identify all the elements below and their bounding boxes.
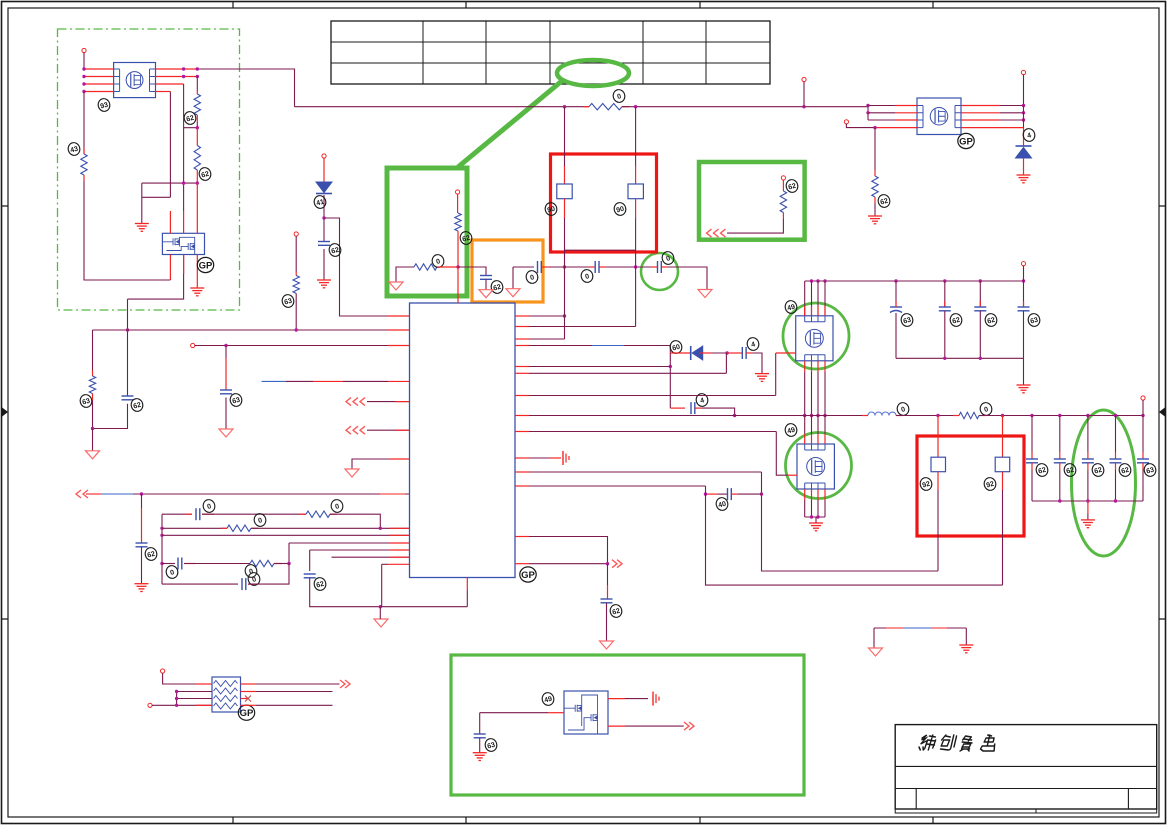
junction	[1022, 104, 1025, 107]
label R10	[612, 88, 626, 103]
wire	[804, 281, 806, 316]
highlight rect 3 (bottom)	[451, 655, 804, 795]
wire pin row	[529, 326, 636, 328]
label R6	[253, 512, 267, 527]
label R3	[198, 166, 212, 181]
label C18	[695, 392, 709, 407]
wire Q3 pin	[961, 112, 1000, 114]
junction	[1022, 279, 1025, 282]
wire	[635, 218, 637, 327]
junction	[1086, 414, 1089, 417]
terminal P8	[844, 120, 848, 124]
svg-text:GP: GP	[240, 708, 254, 719]
wire pin row	[529, 338, 565, 340]
pin stub	[515, 326, 529, 328]
label C7	[165, 564, 179, 579]
wire	[1087, 501, 1089, 514]
wire gate	[776, 352, 796, 354]
junction	[82, 90, 85, 93]
wire	[1087, 416, 1089, 453]
pin stub	[515, 415, 529, 417]
wire	[310, 549, 410, 551]
wire	[700, 352, 711, 354]
wire	[1000, 119, 1024, 121]
resistor R11	[780, 191, 786, 213]
label C3	[328, 242, 342, 257]
wire	[162, 534, 410, 536]
label C11	[525, 269, 539, 284]
wire	[815, 517, 817, 523]
wire	[221, 527, 227, 529]
junction	[1141, 414, 1144, 417]
label C22	[1063, 462, 1077, 477]
wire	[874, 170, 876, 176]
wire	[162, 583, 238, 585]
resistor pack element	[214, 696, 238, 702]
pin stub	[515, 471, 529, 473]
wire	[169, 92, 171, 198]
wire	[83, 92, 85, 155]
wire	[979, 415, 1143, 417]
wire	[746, 352, 752, 354]
capacitor C18	[691, 402, 695, 414]
label R8	[459, 230, 473, 245]
junction	[1022, 111, 1025, 114]
wire Q1 left pin	[84, 68, 114, 70]
junction	[606, 562, 609, 565]
wire	[1087, 514, 1089, 520]
wire pin	[811, 416, 813, 435]
jumper J2	[628, 184, 643, 199]
capacitor C26	[474, 734, 486, 738]
wire	[944, 311, 946, 359]
junction	[823, 279, 826, 282]
wire pin row	[324, 218, 410, 316]
wire	[184, 563, 250, 565]
wire	[83, 175, 85, 181]
designator GP RP1	[238, 705, 254, 720]
pin stub	[515, 431, 529, 433]
wire	[625, 725, 684, 727]
wire	[309, 550, 311, 571]
wire pin	[824, 489, 826, 500]
highlight circle q1	[783, 303, 849, 369]
wire	[289, 542, 410, 544]
wire	[625, 698, 648, 700]
label D3	[669, 339, 683, 354]
designator GP Q3	[958, 133, 974, 148]
wire	[196, 77, 198, 92]
capacitor C19	[728, 488, 732, 500]
pin stub	[390, 542, 410, 544]
wire	[895, 313, 897, 358]
diode D3	[691, 346, 703, 360]
highlight circle small	[641, 253, 678, 290]
junction	[1001, 414, 1004, 417]
wire Q2 pin	[196, 255, 198, 289]
wire	[93, 400, 128, 429]
title block	[895, 725, 1157, 813]
wire	[874, 203, 876, 216]
wire	[183, 84, 185, 211]
ground	[959, 645, 973, 653]
wire pin	[824, 306, 826, 316]
junction	[160, 562, 163, 565]
junction	[287, 562, 290, 565]
capacitor	[974, 307, 986, 311]
wire	[202, 513, 214, 515]
orange rect	[472, 240, 543, 302]
pin stub	[388, 345, 410, 347]
wire	[635, 166, 637, 184]
wire	[1023, 281, 1025, 307]
wire	[895, 112, 917, 114]
wire	[141, 508, 143, 543]
highlight ellipse right	[1072, 410, 1136, 556]
label D1	[313, 194, 327, 209]
label R2	[183, 110, 197, 125]
wire	[295, 236, 297, 272]
terminal P10	[1021, 262, 1025, 266]
wire	[661, 266, 668, 268]
wire gate	[787, 474, 797, 476]
wire	[811, 372, 813, 416]
label C5	[202, 498, 216, 513]
wire	[141, 547, 143, 584]
terminal P9	[1021, 70, 1025, 74]
label C25	[1143, 462, 1157, 477]
label C4	[144, 546, 158, 561]
label C16	[1027, 312, 1041, 327]
wire	[1059, 470, 1061, 501]
pin stub	[395, 401, 410, 403]
wire	[937, 416, 939, 458]
junction	[816, 515, 819, 518]
wire	[396, 267, 414, 282]
wire rail	[622, 106, 868, 108]
wire Q1 pin	[156, 76, 198, 78]
wire	[379, 607, 381, 619]
label R11	[785, 178, 799, 193]
capacitor C1	[122, 396, 134, 400]
resistor R3	[194, 146, 200, 171]
junction	[196, 75, 199, 78]
highlight rect 1	[387, 168, 467, 296]
junction	[816, 279, 819, 282]
junction	[322, 216, 325, 219]
wire	[1031, 470, 1033, 501]
wire pin	[804, 361, 806, 372]
wire Q1 left pin	[84, 76, 114, 78]
junction	[1114, 414, 1117, 417]
junction	[182, 67, 185, 70]
wire	[868, 112, 895, 114]
junction	[943, 357, 946, 360]
junction	[295, 328, 298, 331]
wire	[323, 195, 325, 242]
capacitor C12	[658, 261, 662, 273]
wire	[381, 564, 383, 606]
junction	[175, 690, 178, 693]
wire pin	[804, 489, 806, 500]
wire	[330, 514, 380, 528]
wire	[142, 182, 198, 184]
wire pin	[811, 306, 813, 316]
junction	[943, 279, 946, 282]
wire	[707, 493, 718, 495]
wire	[202, 513, 306, 515]
resistor R12	[872, 176, 878, 197]
ground	[190, 288, 204, 296]
wire Q6 pin	[608, 725, 625, 727]
terminal P2	[191, 343, 195, 347]
ground (triangle)	[219, 429, 233, 437]
wire	[874, 197, 876, 203]
wire	[873, 628, 875, 648]
designator GP U1	[520, 567, 536, 582]
resistor R2	[194, 94, 200, 115]
capacitor C10	[480, 276, 492, 280]
wire pin row	[529, 315, 565, 317]
wire	[1002, 472, 1004, 490]
wire rung	[565, 249, 636, 251]
wire pin	[804, 416, 806, 435]
wire	[330, 513, 337, 515]
wire	[606, 266, 654, 268]
wire	[706, 486, 1003, 585]
wire	[1031, 463, 1033, 470]
input arrows	[707, 229, 726, 237]
ground	[473, 753, 487, 761]
wire	[152, 704, 212, 706]
pin stub	[390, 527, 410, 529]
wire pin	[824, 361, 826, 372]
wire	[824, 372, 826, 416]
no-connect X	[245, 696, 251, 702]
wire	[183, 255, 185, 275]
wire pin row	[195, 345, 410, 347]
wire	[241, 691, 257, 693]
wire	[669, 346, 671, 409]
wire	[727, 352, 742, 354]
wire	[241, 704, 257, 706]
junction	[760, 492, 763, 495]
capacitor	[1054, 459, 1066, 463]
ground	[755, 374, 769, 382]
wire	[1115, 452, 1117, 459]
wire	[256, 683, 340, 685]
junction	[894, 279, 897, 282]
wire	[529, 457, 549, 459]
wire	[896, 357, 1024, 359]
wire	[776, 432, 787, 476]
wire	[1023, 311, 1025, 359]
wire	[196, 683, 212, 685]
wire	[635, 199, 637, 218]
wire	[177, 691, 212, 693]
wire	[874, 128, 876, 170]
net row 494 (bus colored)	[86, 493, 410, 495]
highlight leader line	[458, 80, 563, 167]
output arrow	[612, 560, 622, 568]
ground	[1081, 520, 1095, 528]
wire	[1059, 452, 1061, 459]
pin stub	[515, 345, 529, 347]
title text Wistron	[918, 735, 998, 751]
jumper J1	[557, 184, 572, 199]
wire	[92, 429, 94, 451]
inductor L1	[868, 412, 896, 415]
wire	[752, 353, 762, 374]
ground (triangle)	[389, 282, 403, 290]
label Q6	[541, 691, 555, 706]
junction	[1086, 499, 1089, 502]
wire	[274, 563, 282, 565]
label Q5	[784, 422, 798, 437]
wire pin row	[529, 415, 868, 417]
wire	[564, 267, 566, 316]
resistor R13	[959, 412, 979, 418]
wire pin	[817, 500, 819, 517]
label C14	[949, 312, 963, 327]
wire	[862, 415, 868, 417]
capacitor C6	[304, 574, 316, 578]
wire	[589, 266, 595, 268]
junction	[160, 534, 163, 537]
termination T1	[563, 451, 569, 465]
wire	[541, 266, 549, 268]
wire Q2 pin	[183, 211, 185, 233]
resistor R1	[81, 154, 87, 175]
mosfet Q5	[797, 444, 834, 489]
ground (triangle)	[869, 648, 883, 656]
wire	[1142, 416, 1144, 453]
wire	[606, 603, 608, 641]
junction	[82, 82, 85, 85]
resistor R14	[293, 276, 299, 294]
resistor pack element	[214, 703, 238, 709]
wire	[1142, 470, 1144, 501]
label J4	[983, 476, 997, 491]
wire	[529, 537, 608, 564]
wire	[824, 281, 826, 316]
mosfet Q1	[114, 63, 156, 98]
wire	[1142, 463, 1144, 470]
resistor pack element	[214, 681, 238, 687]
jumper J3	[931, 457, 946, 472]
junction	[563, 105, 566, 108]
capacitor	[1026, 459, 1038, 463]
highlight dashed rect	[58, 29, 240, 310]
wire pin row	[529, 485, 706, 487]
wire rail	[295, 106, 590, 108]
wire	[92, 394, 94, 401]
wire pin	[824, 416, 826, 435]
wire pin row	[529, 366, 670, 368]
input arrows	[346, 426, 365, 434]
resistor pack element	[214, 688, 238, 694]
junction	[82, 67, 85, 70]
wire	[803, 82, 805, 107]
wire	[979, 415, 986, 417]
junction	[823, 414, 826, 417]
wire	[711, 352, 727, 354]
ground	[868, 216, 882, 224]
ground	[1017, 175, 1031, 183]
diode D2	[1016, 146, 1032, 158]
wire	[944, 281, 946, 307]
wire	[725, 353, 727, 373]
wire	[248, 583, 258, 585]
capacitor	[1082, 459, 1094, 463]
capacitor C3	[318, 242, 330, 246]
pin stub	[515, 395, 529, 397]
wire	[1142, 452, 1144, 459]
capacitor C13	[890, 307, 902, 313]
junction	[810, 515, 813, 518]
label C20	[609, 603, 623, 618]
label R12	[877, 193, 891, 208]
ic U1	[410, 303, 516, 578]
junction	[810, 279, 813, 282]
wire	[607, 585, 609, 599]
wire	[1087, 463, 1089, 470]
wire pin	[817, 361, 819, 372]
label Q1	[97, 97, 111, 112]
label C21	[1035, 462, 1049, 477]
terminal P5	[802, 77, 806, 81]
wire	[868, 105, 895, 107]
ground (triangle)	[506, 289, 520, 297]
junction	[733, 414, 736, 417]
wire	[92, 330, 94, 370]
output arrow	[684, 722, 694, 730]
wire	[718, 493, 728, 495]
border centering arrows	[2, 407, 1166, 417]
terminal P14	[294, 232, 298, 236]
label C2	[229, 392, 243, 407]
wire	[241, 683, 257, 685]
red rect 1	[551, 154, 657, 252]
pin stub	[515, 338, 529, 340]
wire	[225, 358, 227, 390]
junction	[379, 527, 382, 530]
wire pin	[824, 434, 826, 444]
mosfet Q3	[917, 98, 961, 135]
pin stub	[515, 536, 529, 538]
pin stub	[390, 556, 410, 558]
wire pin	[804, 500, 806, 517]
wire	[1023, 106, 1025, 128]
wire pin	[817, 416, 819, 435]
wire	[323, 158, 325, 182]
junction	[979, 279, 982, 282]
wire	[83, 53, 85, 69]
wire	[622, 106, 629, 108]
wire	[1031, 416, 1033, 453]
wire	[1059, 416, 1061, 453]
wire	[225, 346, 227, 359]
wire	[1087, 452, 1089, 459]
wire	[162, 563, 175, 565]
junction	[1030, 414, 1033, 417]
wire	[300, 513, 306, 515]
wire	[196, 128, 198, 146]
wire	[811, 281, 813, 316]
wire	[186, 513, 192, 515]
wire	[775, 353, 777, 396]
wire	[1023, 266, 1025, 281]
